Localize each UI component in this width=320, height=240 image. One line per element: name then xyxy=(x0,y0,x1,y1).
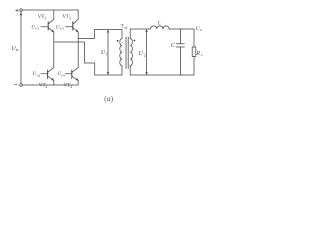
transistor VT2 xyxy=(41,42,54,85)
svg-text:2: 2 xyxy=(46,85,48,89)
svg-text:M: M xyxy=(124,26,128,30)
svg-text:b2: b2 xyxy=(37,73,41,77)
voltage arrow U2 xyxy=(146,29,148,75)
transformer TM secondary winding xyxy=(130,29,132,75)
svg-text:1: 1 xyxy=(44,16,46,20)
svg-text:C: C xyxy=(171,43,176,49)
wire top bus xyxy=(22,9,78,11)
svg-text:L: L xyxy=(201,53,203,57)
wire bottom bus xyxy=(22,84,78,86)
inductor L xyxy=(151,26,170,29)
svg-text:3: 3 xyxy=(69,16,71,20)
wire left-leg midpoint jog to primary bottom xyxy=(54,42,122,75)
svg-text:o: o xyxy=(200,28,202,32)
wire secondary bottom rail xyxy=(130,74,194,76)
voltage arrow U1 xyxy=(107,30,109,75)
svg-text:R: R xyxy=(195,51,200,57)
plus sign xyxy=(16,9,19,12)
transformer core xyxy=(126,37,128,69)
polarity dot primary xyxy=(117,40,119,42)
svg-text:b1: b1 xyxy=(36,27,40,31)
terminal - (bottom left) xyxy=(20,84,23,87)
wire secondary top to inductor xyxy=(130,28,150,30)
svg-text:b3: b3 xyxy=(60,27,64,31)
wire right-leg midpoint to primary top xyxy=(78,30,122,39)
capacitor C xyxy=(176,29,184,75)
node input current arrow xyxy=(20,13,22,15)
minus sign xyxy=(15,84,18,86)
svg-text:b4: b4 xyxy=(62,73,66,77)
terminal + (top left) xyxy=(20,9,23,12)
transistor VT3 xyxy=(66,10,79,39)
svg-text:2: 2 xyxy=(144,53,146,58)
svg-text:4: 4 xyxy=(70,85,72,89)
svg-text:L: L xyxy=(157,21,161,27)
svg-text:1: 1 xyxy=(106,52,108,57)
transformer TM primary winding xyxy=(120,30,122,76)
wire left rail xyxy=(20,11,22,83)
transistor VT4 xyxy=(65,39,78,86)
svg-text:(a): (a) xyxy=(104,95,113,103)
polarity dot secondary xyxy=(134,40,136,42)
transistor VT1 xyxy=(41,10,54,42)
resistor RL load xyxy=(192,29,196,75)
svg-text:in: in xyxy=(16,48,19,52)
wire inductor to load corner xyxy=(169,28,194,30)
